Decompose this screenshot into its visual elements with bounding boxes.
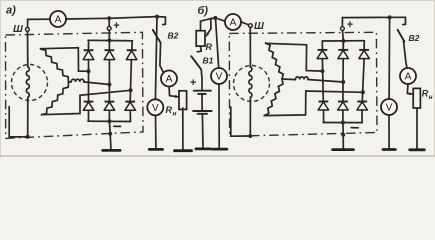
terminal Ш (circuit а): [26, 28, 30, 32]
voltmeter V2 (circuit б): [211, 68, 227, 84]
svg-text:н: н: [429, 94, 433, 101]
ground (chassis, V circuit б): [212, 148, 227, 151]
wire: [157, 17, 165, 25]
resistor R (field rheostat, circuit б): [196, 31, 205, 46]
ground (chassis, circuit б −): [333, 148, 354, 151]
svg-text:V: V: [216, 72, 223, 83]
diode VD3 (circuit б): [359, 50, 370, 59]
svg-text:н: н: [173, 111, 177, 118]
svg-text:+: +: [190, 77, 196, 89]
label − (circuit а): [114, 125, 121, 127]
node: phase 1 junction: [87, 69, 91, 73]
wire: [108, 18, 110, 26]
node: voltmeter tap (б): [388, 15, 392, 19]
wire (phase 3, б): [264, 91, 363, 116]
wire: [342, 30, 345, 41]
ground (chassis, battery): [196, 147, 211, 150]
stator winding W2 (circuit а): [69, 81, 72, 83]
svg-text:а): а): [6, 5, 16, 17]
ground (chassis, Rн circuit б): [410, 148, 425, 151]
node: − bus junction (б): [341, 121, 345, 125]
rectifier − bus (circuit б): [323, 122, 362, 124]
wire: [66, 17, 109, 20]
wire: [403, 17, 406, 24]
wire: [160, 43, 164, 73]
wire: [404, 42, 408, 69]
rotor / field winding (circuit б): [234, 66, 270, 102]
diode VD1 (circuit а): [83, 50, 94, 59]
wire (phase 1): [41, 48, 89, 71]
stator winding W3 (circuit а): [42, 82, 69, 115]
wire (leg 3 upper, б): [363, 41, 365, 50]
stator winding W2 (circuit б): [282, 78, 295, 81]
svg-text:R: R: [166, 105, 173, 115]
wire (leg 1 upper): [88, 40, 90, 50]
switch В2 blade (circuit а): [153, 30, 161, 43]
svg-text:В2: В2: [409, 33, 420, 43]
wire (field return to frame): [9, 107, 28, 137]
wire: [406, 84, 409, 93]
wire (phase 2, б): [308, 80, 344, 83]
node: phase 3 junction: [129, 88, 133, 92]
battery GB cell 1 short plate: [198, 93, 206, 95]
wire (leg 1 lower, б): [323, 110, 325, 123]
wire: [201, 114, 204, 148]
wire: [182, 108, 184, 150]
ground (chassis, circuit а −): [103, 149, 120, 152]
wire: [215, 18, 225, 21]
rheostat wiper arrow into R: [206, 29, 211, 36]
field coil (circuit б): [249, 67, 252, 97]
wire (R top lead): [201, 19, 211, 31]
resistor Rн (load rheostat, circuit а): [179, 91, 187, 110]
node: phase 2 junction: [107, 83, 111, 87]
wire (between cells): [201, 94, 203, 111]
svg-text:V: V: [386, 103, 393, 114]
wire: [168, 87, 171, 96]
ground (chassis, V circuit а): [149, 148, 162, 151]
switch В2 blade (circuit б): [398, 30, 405, 42]
wire (leg 3 mid): [130, 60, 131, 102]
wire (leg 3 mid, б): [362, 59, 364, 102]
svg-text:+: +: [113, 20, 119, 32]
wire: [28, 19, 51, 27]
terminal + (output, circuit а): [107, 27, 111, 31]
wire with arrow into Rн: [170, 96, 179, 97]
diode VD2 (circuit б): [338, 50, 349, 59]
wire (phase 3): [42, 90, 131, 114]
voltmeter V1 (circuit а): [147, 99, 163, 115]
svg-text:А: А: [230, 18, 237, 29]
node: battery / meters junction: [213, 16, 217, 20]
wire (leg 2 mid, б): [342, 59, 344, 102]
node: field return junction (б): [248, 134, 252, 138]
wire (+ bus, б): [342, 16, 405, 18]
wire (phase 2): [84, 82, 110, 85]
wire (+ bus to tap): [109, 17, 157, 19]
node: phase 1 junction (б): [321, 69, 325, 73]
wire (leg 1 mid): [88, 60, 90, 102]
diode VD1 (circuit б): [317, 50, 328, 59]
wire (leg 1 mid, б): [321, 59, 324, 102]
rectifier − bus (circuit а): [88, 120, 131, 122]
svg-text:Ш: Ш: [13, 24, 23, 35]
wire: [249, 98, 251, 137]
wire (leg 3 lower, б): [361, 110, 363, 123]
wire: [241, 22, 249, 25]
diode VD3 (circuit а): [126, 50, 137, 59]
svg-text:Ш: Ш: [254, 21, 264, 32]
wire (leg 2 lower, б): [342, 110, 344, 123]
wire (voltmeter lead): [155, 17, 157, 100]
wire (leg 2 upper, б): [342, 41, 344, 50]
node: field return junction: [26, 135, 30, 139]
wire: [197, 46, 201, 52]
svg-text:В1: В1: [203, 56, 214, 66]
terminal Ш (circuit б): [249, 24, 253, 28]
wire: [27, 98, 29, 137]
node: phase 3 junction (б): [361, 90, 365, 94]
battery GB cell 1 long plate: [194, 90, 211, 92]
wire: [27, 31, 29, 66]
wire (leg 1 lower): [88, 110, 90, 121]
terminal + (output, circuit б): [341, 27, 345, 31]
wire (voltmeter lead down, б): [388, 17, 391, 99]
node: + bus / output junction: [107, 38, 111, 42]
wire: [218, 84, 220, 148]
svg-text:А: А: [166, 74, 173, 85]
ammeter A2 (load ammeter, circuit а): [161, 71, 177, 87]
wire (voltmeter lead, circuit б): [216, 18, 219, 68]
wire (phase 1, б): [266, 43, 323, 71]
wire (leg 2 mid): [108, 60, 110, 102]
node: − lead on frame line (б): [341, 133, 345, 137]
svg-text:б): б): [198, 5, 209, 17]
wire (− lead, б): [342, 123, 344, 150]
rectifier + bus (circuit б): [322, 40, 364, 42]
wire (leg 2 lower): [108, 110, 110, 121]
stator winding W3 (circuit б): [264, 79, 283, 116]
node: + bus junction: [107, 16, 111, 20]
diode VD6 (circuit б): [357, 102, 368, 111]
stator winding W1 (circuit б): [266, 43, 284, 79]
svg-text:+: +: [347, 19, 353, 31]
battery GB cell 2 long plate: [193, 110, 212, 112]
diode VD5 (circuit б): [338, 102, 349, 111]
wire: [211, 17, 216, 20]
diode VD6 (circuit а): [125, 102, 136, 111]
wire (leg 1 upper, б): [321, 41, 323, 50]
wire (leg 3 upper): [131, 41, 133, 50]
ammeter A4 (load ammeter, circuit б): [400, 68, 416, 84]
wire: [341, 18, 343, 27]
node: phase 2 junction (б): [341, 80, 345, 84]
voltmeter V3 (output voltmeter, circuit б): [381, 99, 397, 115]
wire (leg 3 lower): [129, 110, 131, 121]
wire with arrow into Rн (б): [407, 92, 412, 95]
wire: [155, 115, 157, 148]
svg-text:А: А: [405, 72, 412, 83]
generator dash-dot frame (circuit б): [229, 32, 377, 136]
wire (leg 2 upper): [108, 40, 110, 50]
node: − bus junction: [107, 119, 111, 123]
rectifier + bus (circuit а): [88, 39, 132, 42]
node: + bus junction (б): [341, 39, 345, 43]
svg-text:А: А: [55, 15, 62, 26]
resistor Rн (load rheostat, circuit б): [413, 88, 420, 108]
diode VD4 (circuit б): [318, 102, 329, 111]
stator winding W1 (circuit а): [41, 49, 69, 82]
svg-text:R: R: [206, 42, 213, 52]
ammeter A3 (field ammeter, circuit б): [225, 14, 241, 30]
diode VD4 (circuit а): [83, 102, 94, 111]
wire: [200, 69, 203, 90]
ground (chassis, Rн circuit а): [175, 149, 192, 152]
svg-text:В2: В2: [168, 31, 179, 41]
rotor / field winding (circuit а): [12, 65, 48, 101]
field coil (circuit а): [26, 67, 29, 97]
wire: [416, 108, 418, 149]
diode VD5 (circuit а): [104, 102, 115, 111]
wire: [388, 115, 390, 149]
ammeter A1 (charging ammeter, circuit а): [50, 11, 66, 27]
node: voltmeter tap: [155, 15, 159, 19]
wire: [108, 30, 110, 40]
diode VD2 (circuit а): [104, 50, 115, 59]
battery GB cell 2 short plate: [198, 113, 208, 115]
generator dash-dot frame (circuit а): [6, 32, 144, 138]
switch В1 blade: [191, 56, 201, 69]
wire: [249, 28, 251, 67]
node: − lead on frame line: [108, 132, 112, 136]
wire (field return to frame, б): [231, 107, 251, 136]
label − (circuit б): [351, 127, 358, 129]
wire (− lead): [109, 121, 111, 150]
ground (chassis, V output б): [383, 148, 395, 151]
svg-text:V: V: [152, 103, 159, 114]
